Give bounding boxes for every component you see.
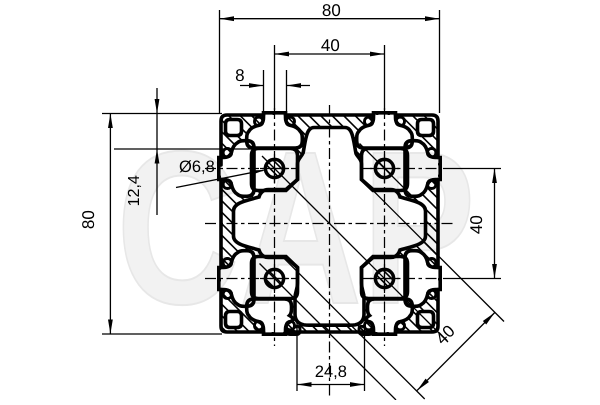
hole 6.8 top-right (375, 159, 393, 177)
diagonal through holes TL-BR (262, 156, 448, 342)
slot cavity left-lower (219, 141, 254, 197)
horizontal axis holes top (205, 168, 298, 170)
slot cavity right-lower (405, 251, 440, 307)
dim 40 right extension lines (443, 168, 501, 170)
dim 24.8 extension lines (296, 322, 298, 391)
slot lip curls (255, 321, 263, 330)
dim 80 left extension lines (102, 113, 222, 115)
watermark CAP (123, 151, 469, 305)
vertical axis slot right (384, 108, 386, 346)
dim 40 right (494, 169, 496, 279)
slot cavity left-upper (219, 251, 254, 307)
slot cavity bottom-left (247, 299, 293, 334)
slot lip curls (427, 259, 436, 267)
central cavity (234, 128, 426, 326)
slot cavity bottom-right (366, 299, 412, 334)
dim 40 diagonal extension lines (283, 257, 425, 399)
corner screw channel bottom-right (418, 312, 434, 328)
dim 80 left (109, 114, 111, 335)
slot lip curls (427, 149, 436, 157)
dim 24.8 (297, 384, 365, 386)
corner screw channel top-left (226, 120, 242, 136)
slot lip curls (365, 321, 373, 330)
hole boss top-left (252, 149, 298, 191)
horizontal axis holes bottom (205, 278, 298, 280)
hole 6.8 bottom-right (375, 269, 393, 287)
section hatching (210, 0, 450, 405)
dim 40 diagonal (417, 313, 495, 391)
vertical centre axis (329, 105, 331, 398)
dim 40 top (275, 53, 385, 55)
dim 80 top extension lines (219, 10, 221, 113)
dim 80 top (220, 18, 440, 20)
hole boss bottom-left (252, 257, 298, 299)
hole 6.8 bottom-left (265, 269, 283, 287)
slot cavity top-right (357, 113, 413, 148)
vertical axis slot left (274, 108, 276, 346)
diagonal through hole BL (260, 264, 397, 401)
diagonal through hole TR (360, 144, 417, 201)
hole boss top-right (362, 149, 408, 191)
dim 8 extension lines (263, 70, 265, 113)
bottom channel hook right (359, 323, 373, 335)
hole 6.8 top-left (265, 159, 283, 177)
profile outer contour (221, 115, 438, 332)
dim 8 (240, 85, 264, 87)
slot lip curls (223, 180, 232, 188)
hole boss bottom-right (362, 257, 408, 299)
bottom channel hook left (286, 323, 300, 335)
dim 40 top extension lines (274, 45, 276, 110)
corner screw channel top-right (418, 120, 434, 136)
slot lip curls (255, 117, 263, 126)
slot lip curls (223, 290, 232, 298)
slot cavity top-left (247, 113, 303, 148)
corner screw channel bottom-left (226, 312, 242, 328)
dim 12.4 (156, 88, 158, 114)
slot cavity right-upper (405, 141, 440, 197)
horizontal centre axis (205, 223, 455, 225)
leader dia 6.8 (176, 170, 264, 187)
slot lip curls (365, 117, 373, 126)
dim 12.4 extension line (114, 148, 254, 150)
